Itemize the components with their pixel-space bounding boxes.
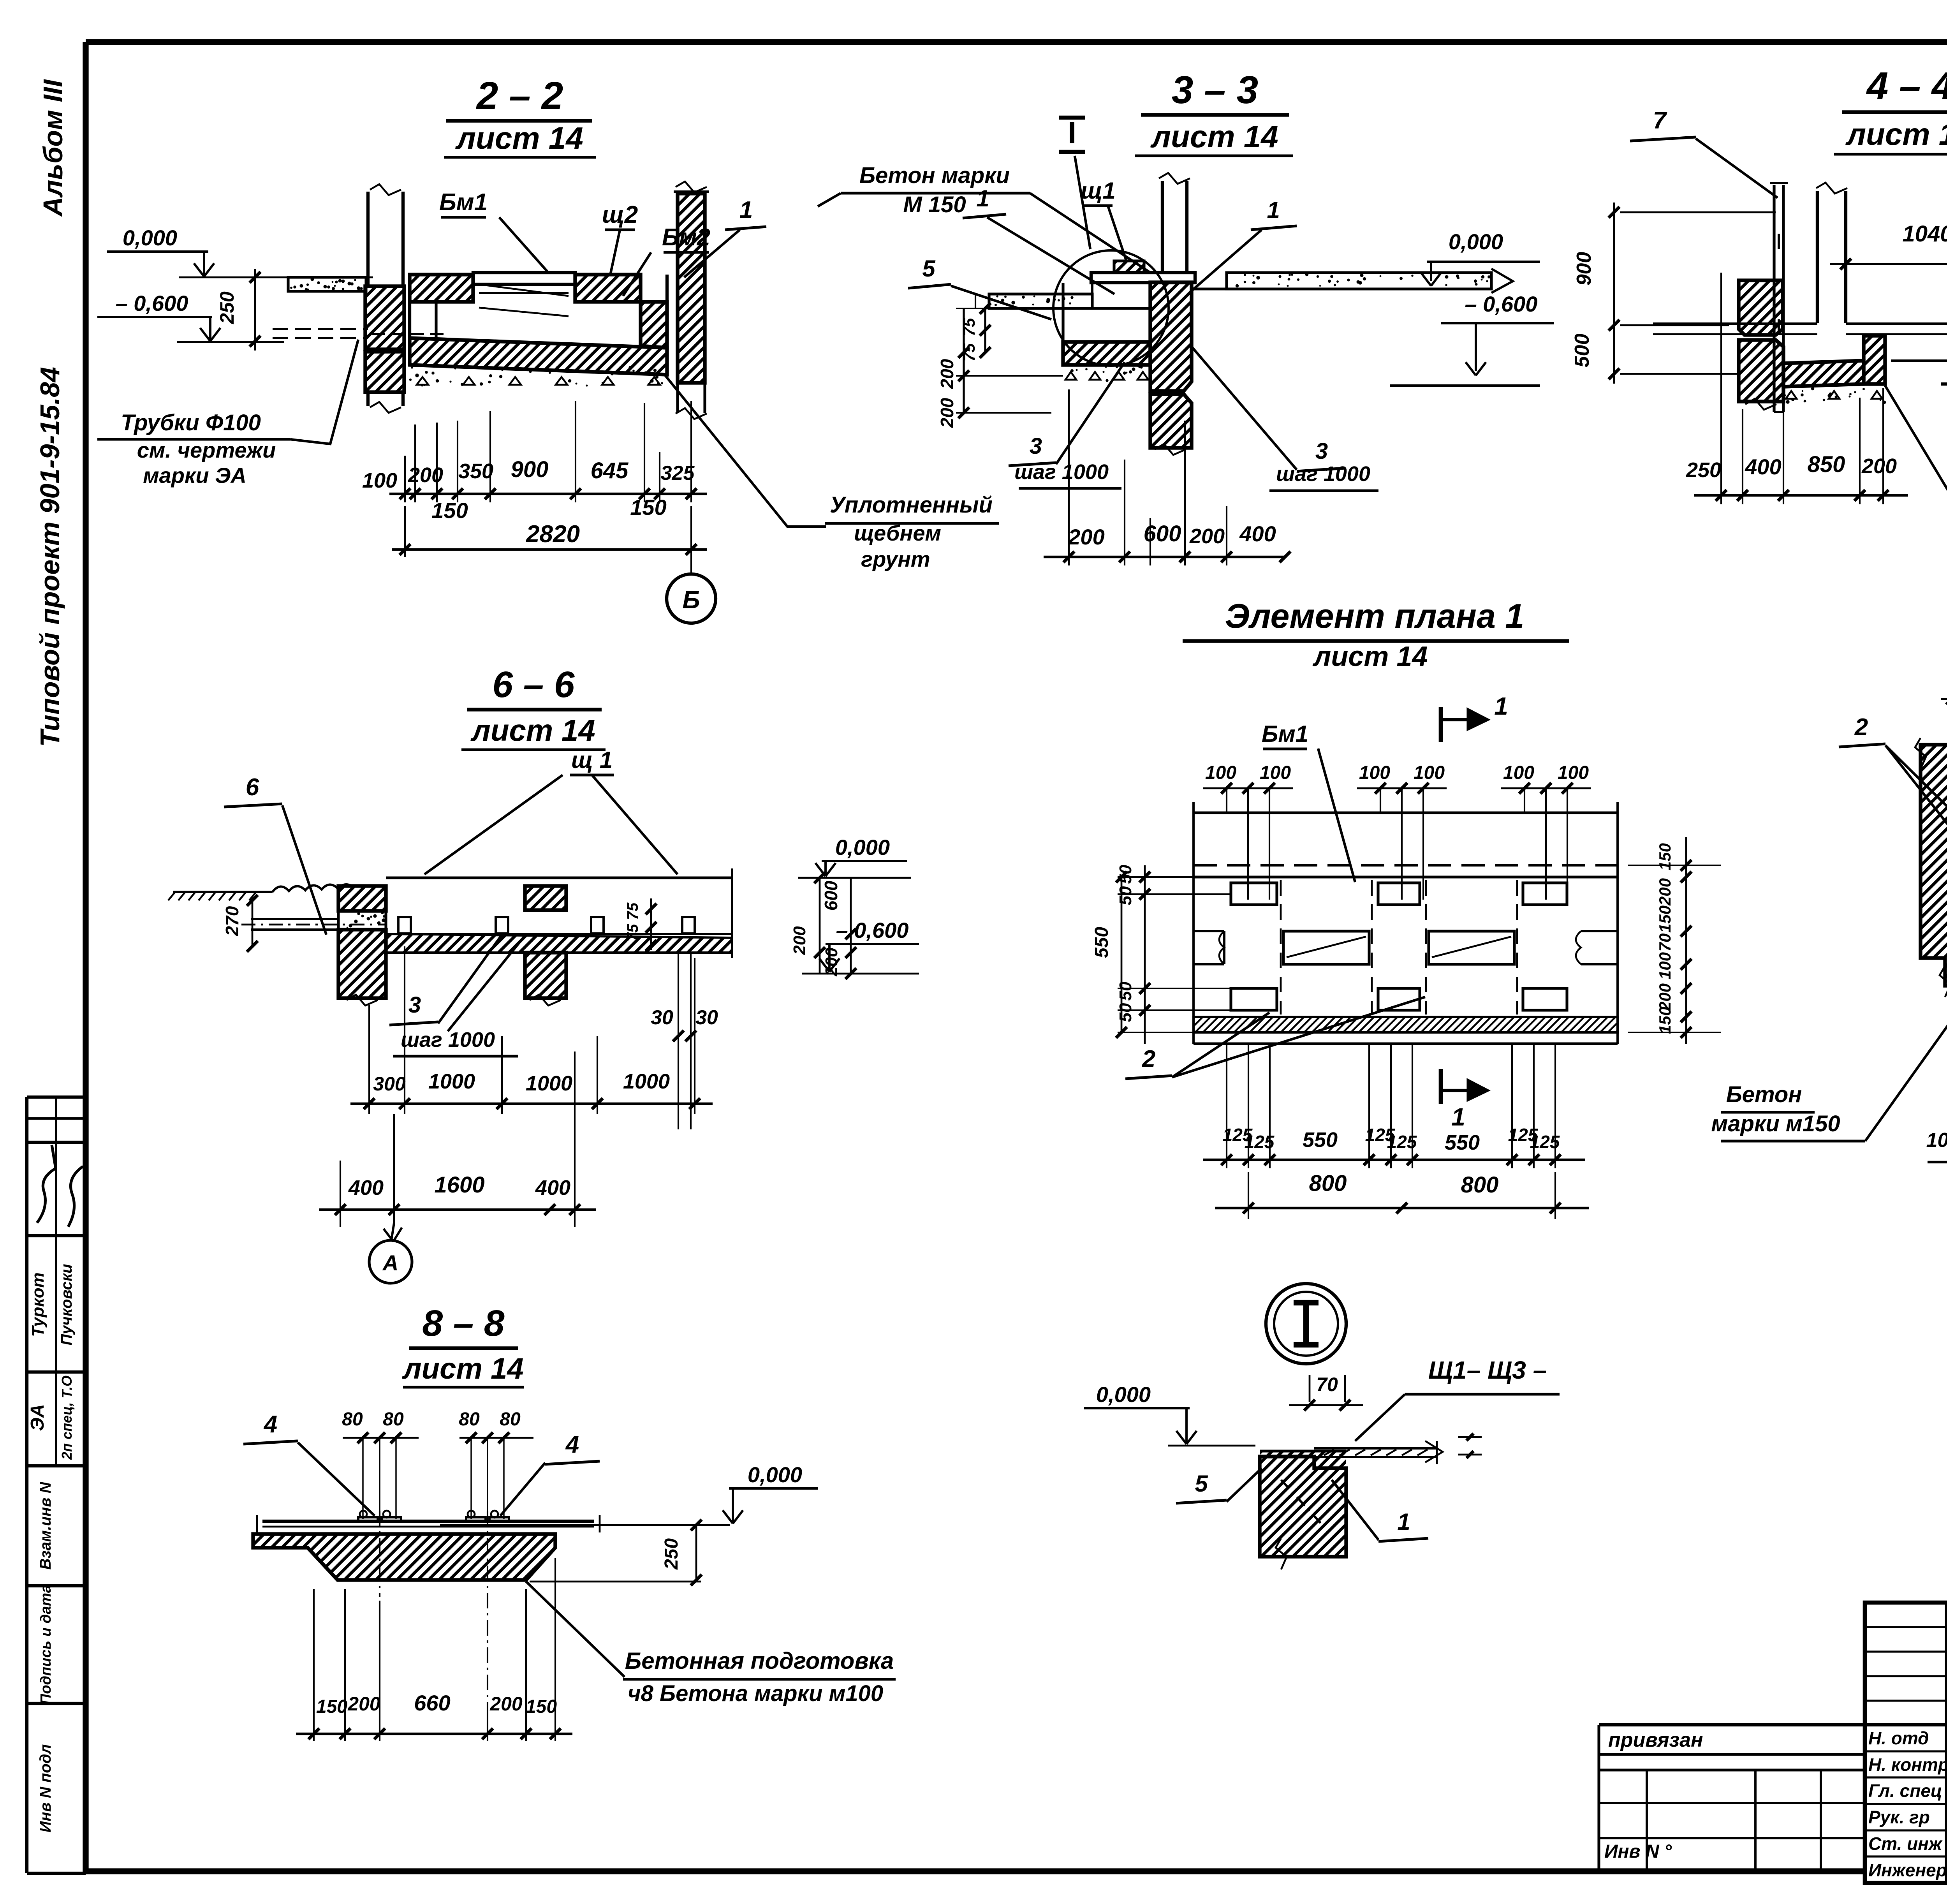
svg-text:ЭА: ЭА	[27, 1404, 48, 1431]
svg-text:850: 850	[1808, 452, 1845, 477]
plan lower row plates	[1231, 988, 1277, 1010]
svg-text:100: 100	[1359, 763, 1390, 783]
section 3-3 level line -600	[1390, 384, 1540, 387]
svg-text:400: 400	[535, 1176, 570, 1199]
left stamp signatures	[37, 1145, 56, 1223]
svg-text:2: 2	[1854, 714, 1868, 741]
svg-text:Н. контр: Н. контр	[1868, 1754, 1947, 1775]
svg-text:2: 2	[1142, 1046, 1155, 1073]
svg-text:4 – 4: 4 – 4	[1866, 64, 1947, 108]
section 3-3 small hatched block on cover	[1114, 261, 1144, 273]
svg-text:1000: 1000	[428, 1070, 475, 1093]
svg-text:Бм1: Бм1	[439, 189, 488, 216]
section 3-3 trough	[1062, 283, 1064, 342]
svg-text:200: 200	[1189, 525, 1225, 548]
plan dashed line upper	[1194, 864, 1618, 867]
svg-text:А: А	[382, 1251, 398, 1275]
left margin stamp table	[25, 1097, 28, 1873]
svg-text:1040: 1040	[1902, 221, 1947, 247]
svg-text:660: 660	[414, 1691, 450, 1715]
svg-text:645: 645	[591, 458, 629, 483]
svg-text:0,000: 0,000	[1449, 229, 1503, 254]
svg-text:Типовой проект 901-9-15.84: Типовой проект 901-9-15.84	[35, 367, 65, 747]
section 2-2 channel inner walls	[435, 302, 437, 338]
svg-text:Бетон: Бетон	[1726, 1082, 1802, 1107]
svg-text:марки ЭА: марки ЭА	[143, 463, 246, 488]
svg-text:Туркот: Туркот	[28, 1272, 48, 1337]
svg-text:Гл. спец: Гл. спец	[1868, 1781, 1942, 1801]
svg-text:ч8 Бетона марки м100: ч8 Бетона марки м100	[628, 1681, 883, 1706]
plan outer rectangle	[1194, 811, 1618, 814]
section 2-2 right tall wall hatched	[678, 194, 705, 383]
section 4-4 left wall lower block	[1739, 340, 1783, 402]
plan middle slots row	[1194, 930, 1224, 932]
section 4-4 panel 7 lines over wall	[1773, 185, 1775, 412]
svg-text:150: 150	[1656, 1007, 1674, 1034]
svg-text:100: 100	[1656, 952, 1674, 979]
section 2-2 left wall column hatched	[365, 286, 404, 349]
svg-text:шаг 1000: шаг 1000	[1014, 460, 1109, 484]
section 4-4 label Бетон марки м150 leader	[1885, 386, 1947, 548]
svg-text:0,000: 0,000	[1096, 1382, 1151, 1407]
section 4-4 left wall upper block	[1739, 280, 1783, 335]
svg-text:125: 125	[1530, 1132, 1560, 1152]
svg-text:100: 100	[1260, 763, 1291, 783]
svg-text:0,000: 0,000	[748, 1462, 802, 1487]
section 6-6 bottom chain 300 1000 1000 1000	[368, 1005, 370, 1114]
svg-text:грунт: грунт	[861, 547, 930, 571]
section 3-3 wall column above	[1161, 181, 1164, 273]
svg-text:Инв N подл: Инв N подл	[37, 1744, 54, 1833]
svg-text:100: 100	[1414, 763, 1445, 783]
svg-text:1: 1	[1267, 197, 1280, 223]
section 2-2 wall above lines	[366, 192, 370, 286]
svg-text:5: 5	[922, 255, 936, 282]
section 2-2 left floor slab speckled	[288, 277, 366, 291]
section 2-2 channel bottom slab hatched	[410, 338, 667, 375]
plan dashed partition verticals	[1280, 880, 1282, 1015]
svg-text:М 150: М 150	[903, 192, 966, 217]
svg-text:0,000: 0,000	[123, 225, 177, 250]
section 2-2 underslab speckle band with triangles	[568, 379, 572, 383]
svg-text:1: 1	[1451, 1103, 1465, 1131]
svg-text:1000: 1000	[526, 1072, 572, 1095]
title block label rows	[1865, 1750, 1947, 1752]
svg-text:1: 1	[739, 197, 753, 224]
svg-text:щ1: щ1	[1081, 178, 1115, 204]
svg-text:80: 80	[383, 1409, 404, 1430]
svg-text:лист 14: лист 14	[1313, 641, 1428, 672]
svg-text:400: 400	[1745, 454, 1781, 479]
section 2-2 channel top slab hatched right	[575, 275, 641, 302]
section 6-6 main slab	[386, 876, 732, 879]
section 2-2 dim chain 100 200 350 900 645 325	[389, 493, 707, 495]
svg-text:марки м150: марки м150	[1711, 1111, 1840, 1136]
section 4-4 underslab speckles	[1827, 394, 1831, 397]
svg-text:3: 3	[1030, 433, 1042, 459]
detail I wall block hatched	[1260, 1451, 1346, 1468]
plan upper row plates	[1231, 883, 1277, 905]
svg-text:см. чертежи: см. чертежи	[137, 438, 276, 462]
svg-text:лист 14: лист 14	[1150, 119, 1278, 154]
svg-text:2п спец, Т.О: 2п спец, Т.О	[59, 1376, 75, 1460]
svg-text:5: 5	[1195, 1471, 1208, 1497]
svg-text:125: 125	[1387, 1132, 1417, 1152]
section 2-2 dim chain extension lines	[404, 456, 406, 502]
svg-text:привязан: привязан	[1608, 1729, 1703, 1751]
svg-text:Б: Б	[682, 586, 700, 614]
svg-text:Н. отд: Н. отд	[1868, 1728, 1929, 1748]
svg-text:4: 4	[263, 1411, 277, 1438]
svg-text:лист 14: лист 14	[470, 713, 595, 747]
section 4-4 bottom slab hatched	[1783, 361, 1864, 387]
svg-text:500: 500	[1571, 334, 1593, 368]
svg-text:150: 150	[431, 498, 468, 523]
svg-text:лист 14: лист 14	[455, 121, 583, 155]
svg-text:70: 70	[1316, 1374, 1338, 1395]
section 6-6 pipe through wall	[251, 918, 338, 920]
svg-text:1000: 1000	[623, 1070, 670, 1093]
svg-text:30: 30	[695, 1006, 718, 1029]
svg-text:Бетон марки: Бетон марки	[859, 163, 1010, 188]
section 2-2 level line	[179, 277, 373, 278]
svg-text:75: 75	[624, 902, 641, 920]
svg-text:Бм2: Бм2	[662, 224, 710, 251]
svg-text:50: 50	[1116, 1003, 1135, 1022]
svg-text:Трубки Ф100: Трубки Ф100	[121, 410, 261, 435]
svg-text:Уплотненный: Уплотненный	[830, 492, 993, 518]
section 6-6 axis circle А	[393, 1114, 395, 1223]
section 3-3 bottom dim chain 200 600 200 400	[1068, 389, 1070, 565]
svg-text:150: 150	[1656, 905, 1674, 933]
section 6-6 chain 400 1600 400	[340, 1161, 341, 1227]
svg-text:400: 400	[348, 1176, 384, 1199]
svg-text:600: 600	[1144, 521, 1181, 546]
svg-text:150: 150	[1656, 843, 1674, 870]
svg-text:200: 200	[347, 1693, 380, 1715]
svg-text:75: 75	[624, 924, 641, 941]
svg-text:Взам.инв N: Взам.инв N	[37, 1481, 54, 1569]
svg-text:4: 4	[565, 1431, 579, 1458]
svg-text:Рук. гр: Рук. гр	[1868, 1807, 1930, 1827]
svg-text:– 0,600: – 0,600	[116, 291, 188, 315]
svg-text:30: 30	[651, 1006, 673, 1029]
svg-text:7: 7	[1653, 107, 1667, 134]
section 3-3 trough bottom slab hatched	[1063, 342, 1150, 365]
svg-text:550: 550	[1091, 927, 1112, 958]
svg-text:щ2: щ2	[602, 201, 638, 228]
svg-text:200: 200	[937, 398, 957, 428]
section 2-2 axis circle Б	[690, 572, 692, 574]
svg-text:1: 1	[1397, 1509, 1410, 1535]
svg-text:200: 200	[790, 926, 809, 955]
plan section mark 1 top	[1439, 707, 1443, 742]
svg-text:Бетонная подготовка: Бетонная подготовка	[625, 1648, 894, 1674]
section 4-4 bottom dim chain 250 400 850 200	[1720, 273, 1722, 504]
svg-text:Подпись и дата: Подпись и дата	[38, 1585, 54, 1705]
plan bottom dims 125 125 550 ...	[1226, 1044, 1227, 1168]
section 6-6 middle column	[525, 886, 566, 910]
svg-text:200: 200	[1656, 878, 1674, 906]
svg-text:900: 900	[1573, 252, 1595, 286]
svg-text:0,000: 0,000	[835, 835, 890, 860]
section 3-3 left floor slab speckled	[989, 294, 1092, 308]
svg-text:2820: 2820	[526, 521, 580, 548]
title block small rows upper	[1865, 1626, 1947, 1628]
section 1-1 left big wall hatched	[1921, 745, 1947, 986]
section 8-8 dash-dot verticals	[379, 1511, 380, 1597]
svg-text:250: 250	[1686, 458, 1721, 482]
svg-text:Бм1: Бм1	[1262, 721, 1308, 747]
svg-text:125: 125	[1245, 1132, 1275, 1152]
svg-text:150: 150	[316, 1696, 347, 1717]
svg-text:100: 100	[362, 469, 397, 492]
svg-text:3: 3	[408, 992, 421, 1018]
svg-text:Альбом III: Альбом III	[38, 79, 68, 217]
detail I right small tick dim	[1458, 1436, 1482, 1438]
svg-text:2 – 2: 2 – 2	[476, 74, 563, 118]
svg-text:щ 1: щ 1	[571, 747, 613, 773]
plan bottom hatched band	[1194, 1017, 1618, 1032]
svg-text:1: 1	[976, 185, 989, 211]
svg-text:100: 100	[1503, 763, 1534, 783]
svg-text:– 0,600: – 0,600	[1465, 292, 1538, 316]
section 3-3 detail circle	[1053, 250, 1169, 366]
section 6-6 ground line and hatch	[173, 891, 273, 893]
detail I floor plate	[1314, 1447, 1437, 1450]
svg-text:6: 6	[246, 774, 259, 801]
section 8-8 top slab lines	[262, 1520, 594, 1523]
section 4-4 top slab lines	[1653, 322, 1817, 325]
svg-text:щебнем: щебнем	[854, 521, 941, 545]
svg-text:Инженер: Инженер	[1868, 1860, 1947, 1880]
svg-text:1: 1	[1494, 692, 1508, 720]
section 6-6 anchor plates on slab	[398, 917, 411, 934]
section 3-3 right wall hatched	[1150, 282, 1192, 391]
svg-text:80: 80	[500, 1409, 521, 1430]
svg-text:250: 250	[661, 1538, 682, 1570]
svg-text:800: 800	[1461, 1172, 1499, 1198]
svg-text:550: 550	[1303, 1128, 1338, 1152]
section 6-6 right side details	[731, 868, 733, 958]
section 4-4 ground line short	[1941, 382, 1947, 386]
section 4-4 thin wall panel 7	[1773, 185, 1775, 412]
svg-text:6 – 6: 6 – 6	[492, 664, 575, 705]
section 8-8 bottom chain 150 200 660 200 150	[313, 1589, 315, 1741]
svg-text:200: 200	[937, 359, 957, 389]
svg-text:100: 100	[1558, 763, 1589, 783]
section 8-8 trapezoid block hatched	[253, 1534, 555, 1580]
svg-text:100: 100	[1205, 763, 1236, 783]
section 8-8 anchor bolts	[358, 1517, 378, 1521]
svg-text:3 – 3: 3 – 3	[1172, 68, 1258, 112]
svg-text:70: 70	[1656, 934, 1674, 952]
svg-text:Инв N °: Инв N °	[1604, 1841, 1672, 1862]
svg-text:I: I	[1068, 115, 1076, 150]
svg-text:50: 50	[1116, 886, 1135, 905]
detail I circle mark	[1266, 1284, 1346, 1364]
svg-text:3: 3	[1315, 439, 1328, 464]
title block attach table left	[1599, 1723, 1865, 1726]
svg-text:Пучковски: Пучковски	[58, 1264, 75, 1345]
attach table grid	[1599, 1768, 1865, 1771]
svg-text:550: 550	[1445, 1131, 1480, 1154]
sheet frame border	[86, 39, 1947, 45]
svg-text:800: 800	[1309, 1171, 1347, 1196]
svg-text:200: 200	[408, 463, 443, 487]
section 3-3 cover panel	[1091, 273, 1195, 283]
detail I dash-dot in wall	[1281, 1480, 1324, 1527]
section 4-4 wall column above	[1816, 191, 1819, 323]
svg-text:Щ1– Щ3 –: Щ1– Щ3 –	[1428, 1356, 1547, 1384]
svg-text:200: 200	[1861, 454, 1897, 478]
title block main stamp outline	[1865, 1603, 1947, 1883]
svg-text:600: 600	[821, 881, 841, 911]
title block left columns	[1945, 1603, 1947, 1883]
svg-text:150: 150	[630, 495, 666, 520]
svg-text:200: 200	[1068, 525, 1104, 549]
svg-text:250: 250	[216, 291, 238, 324]
svg-text:150: 150	[526, 1696, 557, 1717]
svg-text:8 – 8: 8 – 8	[422, 1303, 504, 1344]
svg-text:200: 200	[489, 1693, 523, 1715]
svg-text:350: 350	[458, 460, 493, 483]
svg-text:Ст. инж: Ст. инж	[1868, 1834, 1943, 1854]
section 4-4 right wall hatched	[1864, 336, 1885, 361]
section 2-2 pipe dashed lines	[273, 328, 368, 330]
svg-text:100: 100	[1926, 1129, 1947, 1152]
svg-text:80: 80	[459, 1409, 480, 1430]
svg-text:200: 200	[822, 948, 841, 977]
section 2-2 channel top slab hatched left	[410, 275, 473, 302]
svg-text:80: 80	[342, 1409, 363, 1430]
svg-text:50: 50	[1116, 981, 1135, 1000]
svg-text:300: 300	[373, 1073, 406, 1095]
plan section mark 1 bottom	[1439, 1069, 1443, 1104]
svg-text:шаг 1000: шаг 1000	[1276, 462, 1370, 486]
svg-text:270: 270	[222, 906, 242, 936]
svg-text:1600: 1600	[434, 1172, 484, 1198]
svg-text:75: 75	[960, 318, 978, 336]
section 2-2 leader to Уплотненный	[664, 374, 826, 527]
section 6-6 left column hatched	[338, 886, 386, 911]
svg-text:шаг 1000: шаг 1000	[401, 1028, 495, 1052]
svg-text:Элемент плана 1: Элемент плана 1	[1225, 597, 1525, 635]
svg-text:лист 14: лист 14	[401, 1352, 523, 1385]
section 2-2 cover panel щ2	[473, 273, 575, 284]
svg-text:900: 900	[511, 457, 549, 482]
section 3-3 right floor slab speckled	[1227, 273, 1491, 289]
svg-text:лист 14: лист 14	[1845, 117, 1947, 151]
svg-text:400: 400	[1239, 521, 1276, 546]
svg-text:325: 325	[661, 462, 695, 484]
